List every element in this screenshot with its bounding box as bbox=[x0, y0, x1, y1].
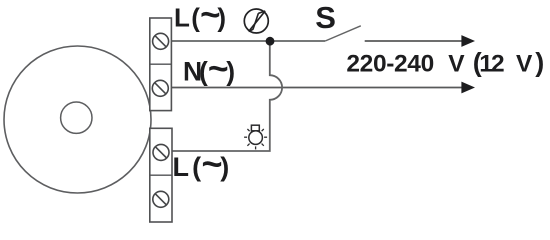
svg-text:L: L bbox=[173, 152, 190, 182]
svg-text:(: ( bbox=[192, 152, 201, 182]
svg-text:(: ( bbox=[191, 3, 200, 33]
arrowhead L output bbox=[461, 35, 475, 47]
label L (~) lower bbox=[173, 143, 230, 184]
svg-text:(: ( bbox=[199, 57, 208, 87]
fan motor body (large circle) bbox=[4, 46, 151, 193]
svg-text:): ) bbox=[217, 3, 226, 33]
svg-text:V: V bbox=[448, 50, 465, 77]
svg-text:220-240: 220-240 bbox=[346, 50, 433, 77]
svg-text:): ) bbox=[220, 152, 229, 182]
timer symbol (circle with hourglass) bbox=[244, 9, 268, 33]
screw terminal L bbox=[153, 33, 169, 49]
screw terminal L2 bbox=[153, 144, 169, 160]
label N(~) bbox=[183, 49, 235, 89]
wire L from terminal to switch bbox=[171, 40, 325, 42]
wire N from terminal to arrow bbox=[171, 87, 463, 89]
label L (~) top bbox=[174, 0, 226, 35]
screw terminal N bbox=[152, 80, 168, 96]
arrowhead N output bbox=[461, 82, 475, 94]
svg-text:): ) bbox=[535, 47, 544, 77]
fan hub (inner circle) bbox=[61, 102, 92, 133]
svg-text:L: L bbox=[174, 3, 190, 33]
lamp symbol bbox=[244, 125, 267, 149]
screw terminal (spare) bbox=[153, 191, 169, 207]
svg-text:V: V bbox=[516, 50, 533, 77]
terminal block lower (switched L) bbox=[150, 128, 172, 222]
terminal block upper (L,N) bbox=[150, 18, 172, 111]
switch S blade bbox=[325, 26, 361, 41]
svg-text:): ) bbox=[226, 57, 235, 87]
svg-text:2: 2 bbox=[491, 50, 505, 77]
label 220-240 V (12 V) bbox=[346, 47, 544, 77]
junction dot bbox=[266, 37, 275, 46]
rays bbox=[244, 129, 267, 149]
wire lamp feed vertical with hop over N bbox=[172, 41, 282, 151]
svg-text:S: S bbox=[315, 0, 336, 35]
wire switched L to arrow bbox=[365, 40, 463, 42]
